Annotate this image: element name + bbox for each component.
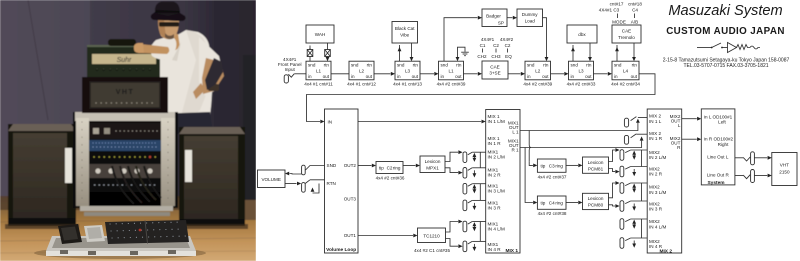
- wire L1b snd up to Badger: [444, 18, 478, 62]
- wire VOLUME to rtn jack: [285, 180, 325, 193]
- wire OUT2 to tip C2 ring: [358, 164, 376, 168]
- svg-text:TEL.03-5707-0715 FAX.03-3705-1: TEL.03-5707-0715 FAX.03-3705-1821: [683, 63, 768, 69]
- svg-text:dbx: dbx: [578, 32, 586, 37]
- box VHT 2150 power amp: [772, 153, 797, 186]
- svg-text:in: in: [527, 74, 531, 79]
- svg-text:C4: C4: [549, 201, 555, 206]
- svg-text:SP: SP: [498, 21, 504, 26]
- jack MIX2 IN 4 L/M: [620, 219, 647, 230]
- box MIX 2: [647, 109, 682, 255]
- wire L3b-L4: [594, 73, 608, 75]
- svg-text:CAE: CAE: [490, 65, 499, 70]
- loop box L4: [612, 61, 639, 80]
- jack MIX2 IN 2 R: [620, 166, 647, 177]
- jack MIX2 IN 1 L: [624, 117, 636, 127]
- svg-text:in: in: [614, 74, 618, 79]
- wire L1-L2: [331, 73, 349, 75]
- isolation plug symbol on WAH return: [325, 50, 331, 57]
- logo circuit doodle: [697, 43, 760, 53]
- loop box L3: [569, 61, 594, 80]
- white background of schematic area: [256, 0, 800, 261]
- svg-text:4x4 #2 cnt#36: 4x4 #2 cnt#36: [376, 176, 405, 181]
- box Volume Loop: [325, 109, 359, 253]
- svg-text:tip: tip: [541, 164, 546, 169]
- svg-text:C3: C3: [549, 164, 555, 169]
- svg-text:Black Cat: Black Cat: [395, 26, 415, 31]
- wire CAE-L2b: [508, 73, 521, 75]
- wire SND to volume send jack: [285, 165, 325, 175]
- box dbx: [567, 25, 597, 43]
- jack MIX1 IN 4 L/M: [463, 221, 486, 232]
- box System: [701, 109, 735, 186]
- wire L1b-CAE 3+SE: [464, 73, 478, 75]
- svg-text:out: out: [412, 74, 419, 79]
- link MIX2 IN 2 pair: [641, 150, 643, 167]
- svg-text:IN 1 R: IN 1 R: [488, 141, 502, 146]
- wire L4 snd to Tremolo: [615, 45, 619, 61]
- wire input to L1: [294, 73, 306, 75]
- svg-text:CH3: CH3: [491, 54, 501, 59]
- svg-text:snd: snd: [308, 62, 316, 67]
- svg-text:IN 3 R: IN 3 R: [488, 206, 502, 211]
- svg-text:4x4 #2 cnt#34: 4x4 #2 cnt#34: [611, 81, 640, 86]
- wire MIX2 OUT L to System in L: [682, 117, 702, 121]
- jack MIX2 IN 1 R: [624, 134, 636, 144]
- svg-text:out: out: [455, 74, 462, 79]
- input jack switch contact: [288, 74, 294, 77]
- svg-text:Line Out R: Line Out R: [707, 172, 730, 177]
- box tip C2 ring: [376, 162, 403, 174]
- svg-text:VHT: VHT: [116, 89, 135, 96]
- svg-text:4X4#2: 4X4#2: [500, 37, 514, 42]
- svg-text:L: L: [678, 123, 681, 128]
- svg-text:Masuzaki System: Masuzaki System: [668, 3, 782, 19]
- box Dummy Load: [517, 9, 543, 27]
- wire MIX2 OUT R to System in R: [682, 137, 702, 141]
- wire Black Cat Vibe to L3 rtn: [410, 43, 414, 61]
- wire tip C2 ring to MPX1: [403, 164, 420, 168]
- svg-text:SND: SND: [327, 163, 337, 168]
- svg-text:L1: L1: [316, 68, 322, 73]
- svg-text:VOLUME: VOLUME: [261, 177, 280, 182]
- svg-text:IN 4 L/M: IN 4 L/M: [649, 224, 667, 229]
- svg-text:in: in: [441, 74, 445, 79]
- loop box L3: [395, 61, 420, 80]
- svg-text:4x4 #2 cnt#39: 4x4 #2 cnt#39: [523, 81, 552, 86]
- link MIX2 IN 3 pair: [641, 183, 643, 201]
- jack MIX1 IN 3 R: [463, 200, 486, 211]
- wire Tremolo to L4 rtn: [632, 43, 636, 61]
- svg-text:Input: Input: [285, 67, 296, 72]
- box CAE Tremolo: [612, 25, 641, 43]
- wire TC1210 to MIX1 IN 4 L/M jack: [446, 220, 463, 232]
- svg-text:Badger: Badger: [486, 14, 501, 19]
- svg-text:IN 3 L/M: IN 3 L/M: [488, 189, 506, 194]
- svg-text:Dummy: Dummy: [522, 12, 539, 17]
- svg-text:Lexicon: Lexicon: [588, 160, 604, 165]
- svg-text:4x4 #1 cnt#13: 4x4 #1 cnt#13: [393, 81, 422, 86]
- svg-text:OUT2: OUT2: [344, 163, 357, 168]
- svg-text:L2: L2: [359, 68, 365, 73]
- svg-text:L4: L4: [623, 68, 629, 73]
- svg-text:2150: 2150: [779, 170, 790, 175]
- box CAE 3+SE: [482, 61, 508, 79]
- svg-text:MPX1: MPX1: [426, 165, 439, 170]
- svg-text:out: out: [585, 74, 592, 79]
- box Lexicon PCM80: [583, 193, 609, 209]
- wire PCM81 to MIX2 IN 2 R jack: [609, 169, 620, 174]
- hop of OUT L wire over OUT R wire: [529, 131, 531, 162]
- svg-text:Suhr: Suhr: [117, 57, 132, 64]
- svg-text:out: out: [323, 74, 330, 79]
- svg-text:out: out: [542, 74, 549, 79]
- svg-text:Lexicon: Lexicon: [588, 196, 604, 201]
- svg-text:C4: C4: [632, 8, 638, 13]
- svg-text:Volume Loop: Volume Loop: [326, 247, 356, 253]
- labels 4X4 controller over Tremolo: [599, 2, 643, 25]
- svg-text:snd: snd: [614, 62, 622, 67]
- svg-text:snd: snd: [571, 62, 579, 67]
- svg-text:rtn: rtn: [367, 62, 373, 67]
- svg-text:IN: IN: [328, 120, 333, 125]
- svg-text:L 1: L 1: [512, 130, 519, 135]
- svg-text:in: in: [351, 74, 355, 79]
- wire PCM80 to MIX2 IN 3 L/M jack: [609, 181, 620, 198]
- jack MIX1 IN 4 R: [463, 241, 486, 252]
- loop box L1: [439, 61, 464, 80]
- input jack plug: [284, 75, 288, 83]
- input label 4X4#1 Front Panel Input: [278, 57, 302, 72]
- loop box L2: [349, 61, 374, 80]
- svg-text:L3: L3: [405, 68, 411, 73]
- svg-text:IN 3 L/M: IN 3 L/M: [649, 190, 667, 195]
- box Black Cat Vibe: [392, 22, 418, 44]
- box Badger amp: [482, 9, 507, 27]
- svg-text:ring: ring: [555, 164, 563, 169]
- svg-text:in: in: [571, 74, 575, 79]
- link MIX1 IN 2 pair: [479, 152, 481, 168]
- svg-text:cnt#17: cnt#17: [610, 2, 624, 7]
- svg-text:PCM81: PCM81: [588, 166, 604, 171]
- jack MIX2 IN 2 L/M: [620, 150, 647, 161]
- wire L3-L1b: [420, 73, 434, 75]
- wire Badger to Dummy Load: [507, 17, 513, 19]
- box tip C4 ring: [537, 196, 566, 209]
- svg-text:snd: snd: [441, 62, 449, 67]
- svg-text:4X4#1 C3: 4X4#1 C3: [599, 8, 620, 13]
- svg-text:System: System: [707, 180, 724, 186]
- wire PCM80 to MIX2 IN 3 R jack: [609, 204, 620, 208]
- svg-text:snd: snd: [527, 62, 535, 67]
- box VOLUME pedal: [258, 170, 286, 188]
- jack MIX1 IN 3 L/M: [463, 183, 486, 194]
- jack MIX2 IN 3 L/M: [620, 183, 647, 194]
- svg-text:rtn: rtn: [456, 62, 462, 67]
- wire tip C4 ring to PCM80: [566, 201, 583, 205]
- svg-text:ring: ring: [555, 201, 563, 206]
- svg-text:4x4 #2 cnt#38: 4x4 #2 cnt#38: [538, 211, 567, 216]
- svg-text:Right: Right: [718, 142, 729, 147]
- svg-text:IN 4 R: IN 4 R: [649, 244, 663, 249]
- wire L1 snd to WAH: [308, 46, 312, 62]
- svg-text:WAH: WAH: [315, 32, 326, 37]
- svg-text:C2: C2: [505, 43, 511, 48]
- svg-text:EQ: EQ: [505, 54, 512, 59]
- link MIX1 IN 3 pair: [479, 184, 481, 201]
- svg-text:4x4 #2 cnt#39: 4x4 #2 cnt#39: [437, 81, 466, 86]
- svg-text:4X4#1: 4X4#1: [481, 37, 495, 42]
- box Lexicon PCM81: [583, 157, 609, 173]
- jack MIX2 IN 3 R: [620, 201, 647, 212]
- svg-text:IN 2 L/M: IN 2 L/M: [488, 155, 506, 160]
- wire Volume Loop to MIX1 IN 1 L/M: [358, 120, 486, 124]
- svg-text:Tremolo: Tremolo: [618, 35, 635, 40]
- svg-text:R 1: R 1: [511, 148, 519, 153]
- svg-text:out: out: [366, 74, 373, 79]
- labels 4X4 controller over CAE 3+SE: [477, 37, 513, 59]
- photo of guitarist with amp rack (left side): [0, 0, 256, 261]
- jack MIX1 IN 2 L/M: [463, 152, 486, 163]
- wire MIX1 OUT L to MIX2 IN 1 L: [520, 118, 647, 131]
- wire L2b-L3b: [551, 73, 565, 75]
- svg-text:VHT: VHT: [780, 163, 789, 168]
- svg-text:CAE: CAE: [622, 29, 631, 34]
- svg-text:IN 1 L/M: IN 1 L/M: [488, 119, 506, 124]
- svg-text:in: in: [308, 74, 312, 79]
- svg-text:PCM80: PCM80: [588, 203, 604, 208]
- wire MPX1 to MIX1 IN 2 L/M jack: [445, 150, 463, 161]
- svg-text:4x4 #1 cnt#11: 4x4 #1 cnt#11: [304, 81, 333, 86]
- wire MIX1 OUT R to MIX2 IN 1 R: [520, 134, 647, 147]
- box MIX 1: [486, 110, 520, 254]
- svg-text:4x4 #2 C1 cnt#35: 4x4 #2 C1 cnt#35: [414, 248, 450, 253]
- svg-text:out: out: [631, 74, 638, 79]
- loop box L2: [525, 61, 551, 80]
- svg-text:Vibe: Vibe: [400, 33, 410, 38]
- svg-text:4x4 #2 cnt#33: 4x4 #2 cnt#33: [567, 81, 596, 86]
- wire L2-L3: [374, 73, 391, 75]
- wire MPX1 to MIX1 IN 2 R jack: [445, 168, 463, 175]
- wire Dummy Load down to L2b rtn: [543, 18, 549, 62]
- wire MIX1 OUT R branch to tip C4 ring: [525, 148, 537, 205]
- wire tip C3 ring to PCM81: [566, 164, 583, 168]
- svg-text:MODE: MODE: [612, 20, 626, 25]
- svg-text:MIX 1: MIX 1: [505, 248, 518, 254]
- svg-text:Left: Left: [718, 119, 726, 124]
- svg-text:Load: Load: [525, 19, 536, 24]
- wire L3b snd to dbx: [571, 45, 575, 61]
- svg-text:rtn: rtn: [324, 62, 330, 67]
- svg-text:snd: snd: [351, 62, 359, 67]
- svg-text:in: in: [397, 74, 401, 79]
- svg-text:OUT1: OUT1: [344, 233, 357, 238]
- svg-text:tip: tip: [541, 201, 546, 206]
- svg-text:CUSTOM AUDIO JAPAN: CUSTOM AUDIO JAPAN: [666, 26, 785, 37]
- svg-text:Lexicon: Lexicon: [425, 159, 441, 164]
- svg-text:4x4 #1 cnt#12: 4x4 #1 cnt#12: [347, 81, 376, 86]
- svg-text:IN 3 R: IN 3 R: [649, 207, 663, 212]
- isolation plug symbol on WAH send: [307, 50, 313, 57]
- svg-text:IN 4 L/M: IN 4 L/M: [488, 227, 506, 232]
- svg-text:rtn: rtn: [543, 62, 549, 67]
- ground loop on L1b rtn: [456, 47, 469, 61]
- svg-text:Line Out L: Line Out L: [707, 154, 729, 159]
- svg-text:A/B: A/B: [631, 20, 638, 25]
- svg-text:RTN: RTN: [327, 181, 336, 186]
- svg-text:C2: C2: [493, 43, 499, 48]
- svg-text:IN 2 R: IN 2 R: [649, 172, 663, 177]
- wire PCM81 to MIX2 IN 2 L/M jack: [609, 148, 620, 161]
- svg-text:cnt#18: cnt#18: [628, 2, 642, 7]
- loop box L1: [306, 61, 331, 80]
- svg-text:3+SE: 3+SE: [489, 71, 500, 76]
- svg-text:IN 2 L/M: IN 2 L/M: [649, 155, 667, 160]
- wire MIX1 OUT L branch to tip C3 ring: [529, 161, 537, 167]
- svg-text:L2: L2: [535, 68, 541, 73]
- jack MIX1 IN 2 R: [463, 168, 486, 179]
- svg-text:IN 1 R: IN 1 R: [649, 136, 663, 141]
- svg-text:MIX 2: MIX 2: [659, 249, 672, 255]
- wire WAH to L1 rtn: [326, 43, 330, 61]
- svg-text:tip: tip: [379, 166, 384, 171]
- box tip C3 ring: [537, 159, 566, 172]
- wire Line Out R to VHT 2150: [735, 170, 772, 183]
- wire OUT1 to TC1210: [358, 234, 418, 238]
- svg-text:snd: snd: [397, 62, 405, 67]
- jack MIX2 IN 4 R: [620, 238, 647, 249]
- link MIX1 IN 4 pair: [479, 222, 481, 242]
- box WAH: [306, 25, 334, 43]
- wire Line Out L to VHT 2150: [735, 152, 772, 165]
- svg-text:IN 4 R: IN 4 R: [488, 247, 502, 252]
- wire TC1210 to MIX1 IN 4 R jack: [446, 239, 463, 249]
- svg-text:rtn: rtn: [413, 62, 419, 67]
- svg-text:TC1210: TC1210: [423, 233, 440, 238]
- wire L3 snd to Black Cat Vibe: [398, 45, 402, 61]
- svg-text:L3: L3: [578, 68, 584, 73]
- wrap wire from L4 out to Volume Loop IN: [307, 74, 656, 124]
- svg-text:CH2: CH2: [477, 54, 487, 59]
- svg-text:IN 2 R: IN 2 R: [488, 173, 502, 178]
- svg-text:OUT3: OUT3: [344, 197, 357, 202]
- svg-text:L1: L1: [448, 68, 454, 73]
- svg-text:IN 1 L: IN 1 L: [649, 119, 662, 124]
- svg-text:rtn: rtn: [632, 62, 638, 67]
- svg-text:C1: C1: [480, 43, 486, 48]
- wire dbx to L3b rtn: [588, 43, 592, 61]
- svg-text:4x4 #2 cnt#37: 4x4 #2 cnt#37: [538, 175, 567, 180]
- box Lexicon MPX1: [420, 156, 445, 173]
- link MIX2 IN 4 pair: [641, 219, 643, 238]
- box TC1210: [418, 228, 446, 243]
- svg-text:ring: ring: [393, 166, 401, 171]
- svg-text:rtn: rtn: [586, 62, 592, 67]
